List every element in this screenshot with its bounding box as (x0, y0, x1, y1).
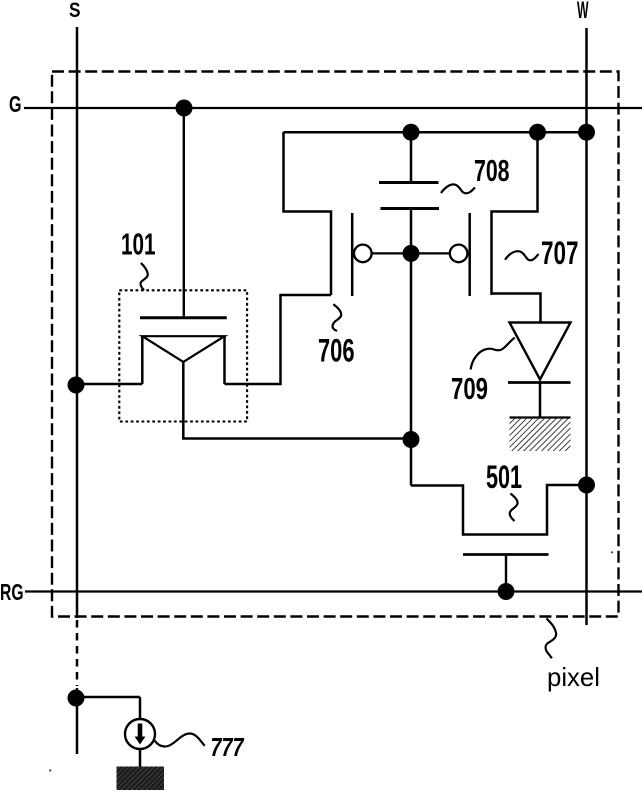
svg-text:G: G (9, 91, 22, 117)
svg-text:709: 709 (451, 371, 488, 406)
svg-text:706: 706 (318, 333, 355, 369)
svg-text:708: 708 (474, 154, 510, 188)
svg-text:W: W (577, 0, 589, 24)
svg-text:S: S (69, 0, 81, 22)
svg-text:101: 101 (121, 227, 156, 262)
svg-text:pixel: pixel (547, 662, 600, 692)
svg-text:707: 707 (541, 235, 579, 271)
svg-text:777: 777 (211, 732, 245, 762)
svg-text:RG: RG (0, 579, 24, 605)
svg-text:501: 501 (486, 459, 522, 495)
